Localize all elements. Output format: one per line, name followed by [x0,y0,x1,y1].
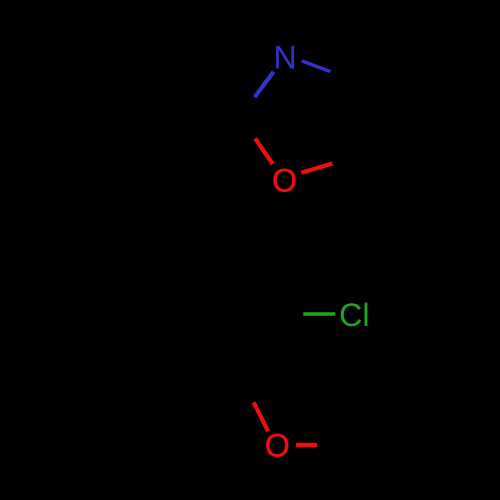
bond C4'-O2 red half (oxygen side) [254,402,268,431]
wire: CH2-C1' bond (carbon-carbon, invisible) [234,183,236,247]
svg-text:O: O [265,427,290,463]
bond N-C2 blue half (nitrogen side) [255,72,274,98]
wire: N-C4 bond black half (carbon side, invisible) [330,71,357,81]
bond C3'-Cl green half (chlorine side) [303,312,335,316]
benzene ring (carbon-carbon bonds, invisible) [118,247,272,380]
benzene aromatic inner double-bond lines (invisible) [230,260,260,312]
wire: O1-C5 bond black half (carbon side, invisible) [331,155,360,164]
wire: C3'-Cl bond black half (carbon side, invisible) [272,312,303,316]
wire: C2-N bond black half (carbon side, invisible) [238,96,255,118]
bond O1-C5 red half (oxygen side) [301,164,332,173]
wire: C4'-O2 bond black half (carbon side, invisible) [234,381,255,404]
svg-text:N: N [273,39,296,75]
wire: C2-CH2 bond (carbon-carbon, invisible) [236,118,238,183]
bond N-C4 blue half (nitrogen side) [302,61,331,72]
bond O1-C2 red half (oxygen side) [255,139,273,164]
wire: C2-O1 bond black half (carbon side, invisible) [238,118,256,139]
svg-text:Cl: Cl [339,297,369,333]
wire: C4-C5 bond (carbon-carbon, invisible) [357,82,361,156]
bond O2-CH3 red half (oxygen side) [296,443,317,447]
wire: O2-CH3 bond black half (methyl side, invisible) [317,443,338,447]
svg-text:O: O [272,162,297,198]
